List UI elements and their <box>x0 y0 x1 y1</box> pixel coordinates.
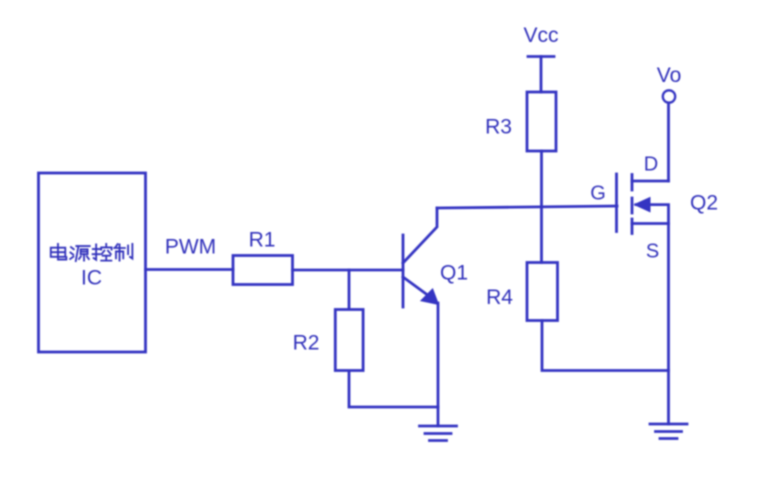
transistor Q1 emitter <box>403 277 429 296</box>
wire R2 bottom to emitter net <box>349 371 438 407</box>
svg-text:IC: IC <box>81 267 102 290</box>
mosfet Q2 body stub with connector <box>636 205 669 224</box>
mosfet Q2 source stub <box>632 222 669 225</box>
resistor R2 <box>335 310 363 371</box>
wire R1 to Q1 base <box>293 269 404 272</box>
wire source down to ground <box>667 224 670 425</box>
svg-text:R1: R1 <box>249 229 276 252</box>
wire drain up to Vo terminal <box>667 103 670 181</box>
ground GND2 <box>650 424 687 439</box>
resistor R3 <box>527 92 556 151</box>
hanzi 控 <box>93 244 112 261</box>
label 电源控制 hand-drawn glyphs <box>51 244 133 261</box>
IC box U1 电源控制IC <box>39 173 146 352</box>
svg-text:Q2: Q2 <box>690 192 718 215</box>
power Vcc bar <box>528 55 554 58</box>
svg-text:S: S <box>646 241 659 263</box>
ground GND1 <box>420 426 457 441</box>
transistor Q1 collector <box>403 208 437 263</box>
svg-text:R2: R2 <box>293 332 320 355</box>
wire PWM: IC output to R1 <box>146 268 234 271</box>
wire R4 bottom to source net <box>542 321 669 371</box>
terminal Vo circle <box>663 90 675 102</box>
svg-text:R4: R4 <box>486 286 513 309</box>
hanzi 制 <box>114 244 132 261</box>
wire node base-R2 junction down to R2 <box>348 270 351 309</box>
mosfet Q2 drain stub <box>632 180 669 183</box>
hanzi 电 <box>51 244 67 260</box>
svg-text:Q1: Q1 <box>440 262 468 285</box>
svg-text:D: D <box>644 154 658 176</box>
svg-text:Vo: Vo <box>657 64 682 87</box>
svg-text:R3: R3 <box>485 116 512 139</box>
transistor Q1 base bar <box>402 235 405 307</box>
wire Vcc to R3 <box>540 57 543 93</box>
wire R3 bottom through gate node to R4 <box>540 151 543 263</box>
svg-text:G: G <box>590 183 606 205</box>
svg-text:PWM: PWM <box>165 236 216 259</box>
transistor Q1 emitter arrowhead <box>422 290 439 305</box>
wire emitter down to ground <box>437 303 440 426</box>
mosfet Q2 gate bar <box>615 174 618 232</box>
svg-text:Vcc: Vcc <box>523 24 558 47</box>
mosfet Q2 channel segments <box>631 175 634 234</box>
mosfet Q2 body arrow <box>635 198 651 212</box>
wire collector to gate node <box>437 206 617 208</box>
hanzi 源 <box>70 246 90 261</box>
resistor R1 <box>233 256 293 285</box>
resistor R4 <box>527 263 558 321</box>
